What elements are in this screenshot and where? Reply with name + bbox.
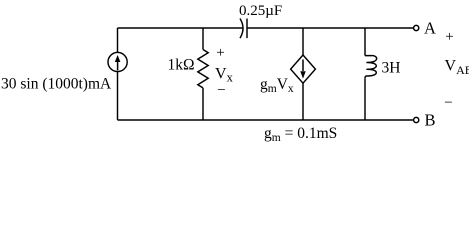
wire inductor branch bottom xyxy=(364,78,366,120)
svg-text:30 sin (1000t)mA: 30 sin (1000t)mA xyxy=(1,76,112,93)
svg-text:+: + xyxy=(216,45,224,61)
inductor L1 3H coil xyxy=(365,56,377,79)
current source I1 circle (30 sin(1000t) mA) xyxy=(108,52,127,71)
wire top: capacitor right plate to terminal A xyxy=(247,27,413,29)
dependent current source diamond gmVx xyxy=(291,55,316,83)
wire bottom rail xyxy=(118,119,414,121)
svg-text:A: A xyxy=(424,19,436,38)
wire top: left corner to capacitor left plate xyxy=(118,27,244,29)
svg-text:VAB: VAB xyxy=(445,58,469,78)
wire resistor branch top xyxy=(202,28,204,50)
wire left branch above current source xyxy=(117,28,119,52)
wire inductor branch top xyxy=(364,28,366,56)
svg-text:−: − xyxy=(444,95,452,111)
svg-text:gmVx: gmVx xyxy=(260,76,294,95)
wire dependent-source branch top xyxy=(302,28,304,55)
svg-text:1kΩ: 1kΩ xyxy=(168,57,195,74)
svg-text:3H: 3H xyxy=(382,60,401,77)
resistor R1 1kOhm zigzag xyxy=(198,50,208,88)
svg-text:0.25µF: 0.25µF xyxy=(239,3,282,19)
current source I1 arrow xyxy=(115,55,121,70)
svg-text:gm = 0.1mS: gm = 0.1mS xyxy=(264,125,337,144)
wire dependent-source branch bottom xyxy=(302,83,304,120)
terminal B open circle xyxy=(414,117,419,122)
terminal A open circle xyxy=(414,25,419,30)
svg-text:B: B xyxy=(424,111,435,130)
capacitor C1 0.25uF left curved plate xyxy=(240,19,243,39)
capacitor C1 0.25uF right plate xyxy=(246,19,248,39)
wire resistor branch bottom xyxy=(202,88,204,120)
dependent current source arrow (downward) xyxy=(300,60,305,79)
svg-text:−: − xyxy=(217,82,225,98)
wire left branch below current source xyxy=(117,72,119,120)
svg-text:+: + xyxy=(445,29,453,45)
